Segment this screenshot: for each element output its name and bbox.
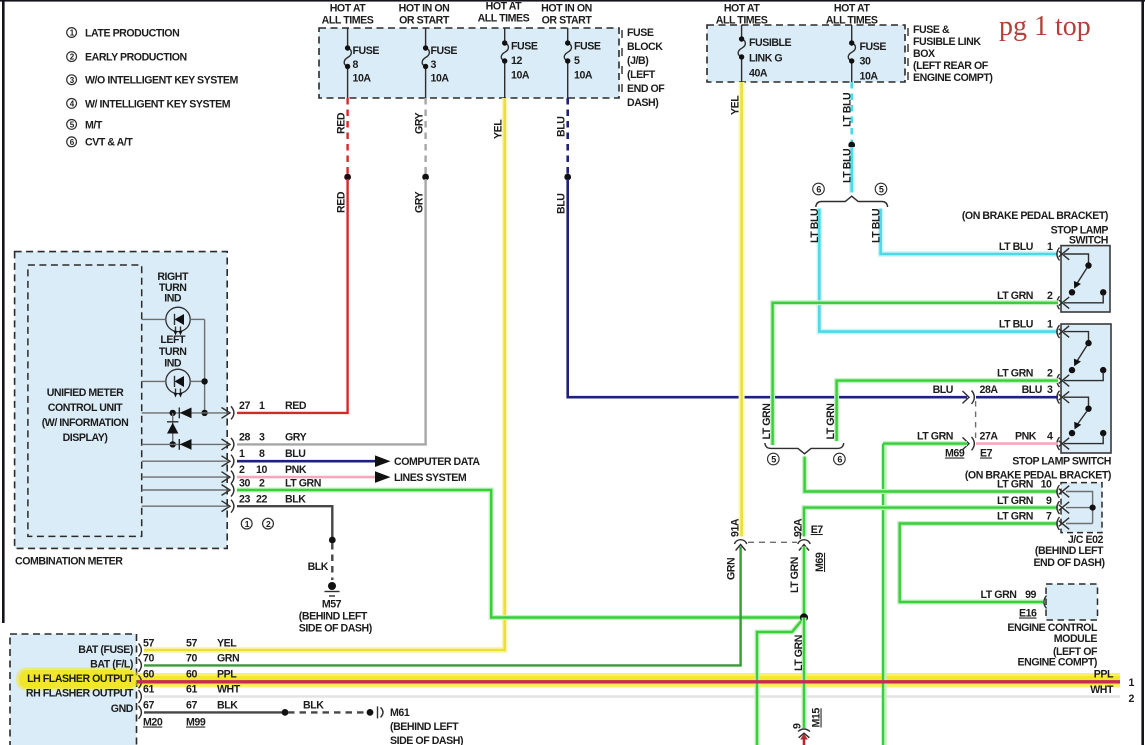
svg-text:OR START: OR START: [399, 15, 450, 27]
pin label 70 70 GRN: [143, 653, 239, 665]
svg-text:COMBINATION METER: COMBINATION METER: [15, 556, 123, 568]
wire label LT BLU branch 5: [870, 209, 882, 243]
wire LT BLU branch 5 to upper stop lamp switch pin 1: [881, 209, 1058, 255]
junction pin 27 row left: [170, 410, 176, 416]
wire LT GRN to upper switch pin 2: [773, 303, 1058, 445]
svg-text:PNK: PNK: [1015, 431, 1037, 443]
svg-text:1: 1: [1047, 319, 1053, 331]
svg-text:FUSE: FUSE: [511, 41, 538, 53]
svg-text:LT GRN: LT GRN: [997, 495, 1033, 507]
svg-text:RH FLASHER OUTPUT: RH FLASHER OUTPUT: [26, 688, 134, 700]
fuse 5 10A: [564, 28, 601, 98]
wire label LT GRN at upper switch: [997, 290, 1033, 302]
junction on BLK wire: [329, 537, 336, 544]
page top border line: [0, 0, 1145, 2]
svg-text:YEL: YEL: [217, 638, 237, 650]
svg-text:OR START: OR START: [542, 15, 593, 27]
svg-text:1: 1: [259, 400, 265, 412]
label BAT (FUSE): [78, 644, 133, 656]
wire label GRY upper: [414, 112, 426, 134]
svg-text:UNIFIED METER: UNIFIED METER: [47, 387, 124, 399]
meter internal wire pin 2 row: [142, 476, 228, 478]
svg-text:BLU: BLU: [933, 384, 953, 396]
svg-text:BOX: BOX: [913, 48, 935, 60]
svg-text:pg 1 top: pg 1 top: [999, 11, 1091, 42]
arrow computer data PNK: [375, 471, 391, 483]
legend note 6 circled: [67, 137, 134, 149]
page left border bar: [2, 0, 5, 623]
bottom box pin 67 connector: [139, 706, 142, 719]
wire YEL from fuse 12 to meter pin 57: [144, 98, 505, 650]
svg-text:28A: 28A: [980, 384, 999, 396]
svg-text:10A: 10A: [511, 70, 530, 82]
wire WHT row: [144, 695, 1120, 698]
label 9 at M15: [792, 723, 804, 729]
merge brace for LT GRN branches: [765, 443, 844, 454]
wire GRY solid to meter pin 28: [237, 179, 426, 444]
svg-text:3: 3: [1047, 384, 1053, 396]
pin label 23 22 BLK: [239, 494, 306, 506]
wire label LT GRN at ECM pin 99: [981, 589, 1017, 601]
wire RED dashed from fuse 8: [346, 98, 348, 175]
wire LT GRN from 92A to J/C E02 pin 9: [804, 508, 1058, 537]
svg-text:(LEFT REAR OF: (LEFT REAR OF: [913, 60, 989, 72]
svg-text:ALL TIMES: ALL TIMES: [322, 15, 374, 27]
svg-text:67: 67: [143, 700, 154, 712]
svg-text:PPL: PPL: [217, 669, 237, 681]
svg-text:LT GRN: LT GRN: [761, 404, 773, 440]
stop lamp switch lower label: [965, 456, 1111, 482]
svg-text:HOT AT: HOT AT: [486, 1, 523, 13]
wire label LT BLU at lower switch: [999, 319, 1033, 331]
label 92A: [793, 518, 805, 537]
highlighter mark on LH FLASHER OUTPUT: [16, 668, 138, 691]
junction at bus pin 27 row: [201, 410, 207, 416]
arrow computer data BLU: [375, 455, 391, 467]
meter pin 28 connector: [222, 438, 234, 451]
svg-text:LT BLU: LT BLU: [842, 93, 854, 127]
fuse 12 10A: [501, 28, 538, 98]
wire LT BLU branch 6 to lower stop lamp switch pin 1: [819, 209, 1058, 332]
svg-text:(ON BRAKE PEDAL BRACKET): (ON BRAKE PEDAL BRACKET): [965, 470, 1111, 482]
svg-text:LT BLU: LT BLU: [870, 209, 882, 243]
svg-text:(W/ INFORMATION: (W/ INFORMATION: [42, 417, 129, 429]
ECM pin 99 connector: [1044, 596, 1047, 609]
wire LT GRN from meter pin 30 to junction: [237, 490, 802, 618]
svg-text:4: 4: [1047, 431, 1053, 443]
svg-text:LT GRN: LT GRN: [917, 431, 953, 443]
wire BLU solid to connector 28A: [568, 179, 967, 397]
pin label 67 67 BLK: [143, 700, 238, 712]
right turn ind label: [157, 271, 189, 305]
lower switch B internal contacts: [1064, 397, 1106, 443]
svg-text:FUSE: FUSE: [574, 41, 601, 53]
pin label 30 2 LT GRN: [239, 478, 321, 490]
pin label 57 57 YEL: [143, 638, 237, 650]
lower switch pin 2 connector: [1057, 374, 1069, 387]
svg-text:ALL TIMES: ALL TIMES: [478, 13, 530, 25]
svg-text:LT GRN: LT GRN: [997, 290, 1033, 302]
pin 7 J/C E02: [1046, 511, 1052, 523]
svg-text:M15: M15: [811, 708, 823, 728]
meter pin 30 connector: [222, 484, 234, 497]
svg-text:LT GRN: LT GRN: [997, 511, 1033, 523]
wire LT GRN from junction down to M15: [802, 618, 807, 729]
wire label LT BLU mid: [842, 149, 854, 183]
pin label 60 60 PPL: [143, 669, 237, 681]
svg-text:EARLY PRODUCTION: EARLY PRODUCTION: [85, 52, 187, 64]
svg-text:12: 12: [511, 55, 522, 67]
wire GRN from 91A down to meter pin 70 row: [144, 547, 741, 666]
vertical wire between pin rows 27 and 28: [172, 413, 174, 445]
svg-text:LT BLU: LT BLU: [999, 319, 1033, 331]
fuse 3 10A: [422, 28, 457, 98]
svg-text:FUSE: FUSE: [860, 41, 887, 53]
svg-text:M61: M61: [390, 707, 410, 719]
svg-text:10: 10: [1041, 479, 1052, 491]
diode on pin 28 row: [179, 439, 191, 450]
pin 2 lower switch: [1047, 368, 1053, 380]
off page label 1: [1129, 677, 1135, 689]
wire LT GRN branch diagonal to left vertical: [757, 620, 803, 745]
svg-text:(BEHIND LEFT: (BEHIND LEFT: [390, 721, 459, 733]
label PPL right end: [1094, 669, 1114, 681]
svg-text:40A: 40A: [749, 68, 768, 80]
svg-text:M99: M99: [186, 717, 206, 729]
svg-text:GRY: GRY: [285, 432, 307, 444]
svg-text:LT GRN: LT GRN: [997, 479, 1033, 491]
wire BLK from meter pin 23: [237, 506, 332, 538]
pin 99 ECM: [1025, 589, 1036, 601]
wire LT BLU solid to split brace: [849, 147, 855, 193]
svg-text:22: 22: [256, 494, 267, 506]
connector 91A: [734, 540, 746, 551]
off page red arrow: [800, 734, 808, 745]
meter internal wire pin 30 row: [142, 489, 228, 491]
svg-text:DISPLAY): DISPLAY): [63, 432, 108, 444]
svg-text:LT BLU: LT BLU: [842, 149, 854, 183]
svg-text:92A: 92A: [793, 518, 805, 537]
svg-text:MODULE: MODULE: [1054, 633, 1098, 645]
svg-text:70: 70: [143, 653, 154, 665]
connector 27A: [963, 437, 975, 450]
label E7 at 92A: [811, 524, 824, 536]
svg-text:30: 30: [860, 56, 871, 68]
svg-text:M69: M69: [814, 552, 826, 572]
stop lamp switch lower box: [1061, 324, 1111, 453]
svg-text:27A: 27A: [980, 431, 999, 443]
dashed link between 28A and 27A: [975, 401, 977, 440]
svg-text:PPL: PPL: [1094, 669, 1114, 681]
page annotation pg 1 top: [999, 11, 1091, 42]
svg-text:7: 7: [1046, 511, 1052, 523]
label M69 under 27A: [945, 448, 965, 460]
junction pin 28 row left: [170, 441, 176, 447]
legend note 5 circled: [67, 119, 103, 131]
left turn indicator LED: [166, 369, 190, 397]
left turn ind label: [159, 334, 187, 370]
label BLU right of 28A: [1022, 384, 1042, 396]
svg-text:60: 60: [143, 669, 154, 681]
wire label LT BLU upper: [842, 93, 854, 127]
svg-text:LT GRN: LT GRN: [981, 589, 1017, 601]
circled 6 at merge brace: [834, 453, 846, 465]
svg-text:E7: E7: [980, 448, 993, 460]
svg-text:2: 2: [266, 519, 271, 529]
svg-text:BLU: BLU: [285, 448, 305, 460]
svg-text:ALL TIMES: ALL TIMES: [826, 15, 878, 27]
wire LT GRN from J/C E02 pin 7 to ECM pin 99: [900, 524, 1058, 603]
pin 3 lower switch: [1047, 384, 1053, 396]
label E7 under 27A: [980, 448, 993, 460]
svg-text:FUSE &: FUSE &: [913, 24, 950, 36]
bottom box pin 60 connector: [139, 675, 142, 688]
wire label LT GRN below 92A: [789, 557, 801, 593]
wire LT GRN to lower switch pin 2: [837, 381, 1058, 441]
net label HOT IN ON OR START (fuse 5): [541, 3, 592, 27]
diode between rows 27 and 28: [167, 422, 178, 434]
svg-text:91A: 91A: [730, 518, 742, 537]
wire label YEL right: [730, 95, 742, 115]
svg-text:M69: M69: [945, 448, 965, 460]
svg-text:SIDE OF DASH): SIDE OF DASH): [390, 735, 463, 745]
circled 2 note at meter: [263, 518, 274, 529]
legend note 3 circled: [67, 75, 239, 87]
svg-text:COMPUTER DATA: COMPUTER DATA: [394, 456, 480, 468]
pin label 61 61 WHT: [143, 684, 241, 696]
junction LT GRN: [800, 613, 808, 621]
meter pin 1 connector: [222, 455, 234, 468]
wire label LT BLU at upper switch: [999, 241, 1033, 253]
fuse 30 10A: [848, 25, 886, 83]
svg-text:PNK: PNK: [285, 464, 307, 476]
circled 5 at upper brace: [875, 183, 887, 195]
svg-text:(BEHIND LEFT: (BEHIND LEFT: [1035, 545, 1104, 557]
wire LT BLU dashed from fuse 30: [850, 82, 853, 143]
fuse 8 10A: [344, 28, 379, 98]
svg-text:BAT (FUSE): BAT (FUSE): [78, 644, 133, 656]
pin 1 upper switch: [1047, 241, 1053, 253]
wire PPL highlighted row: [137, 680, 1120, 683]
label BLK at GND wire: [303, 700, 324, 712]
engine control module box: [1046, 584, 1098, 620]
svg-text:LINK G: LINK G: [749, 53, 782, 65]
svg-text:HOT IN ON: HOT IN ON: [399, 3, 450, 15]
svg-text:FUSE: FUSE: [627, 27, 654, 39]
svg-text:BLOCK: BLOCK: [627, 41, 663, 53]
svg-text:10A: 10A: [431, 73, 450, 85]
net label HOT AT ALL TIMES (fuse 12): [478, 1, 530, 25]
svg-text:BLK: BLK: [285, 494, 306, 506]
label LT GRN left of 27A: [917, 431, 953, 443]
svg-text:WHT: WHT: [217, 684, 241, 696]
svg-text:GRY: GRY: [414, 191, 426, 213]
svg-text:LATE PRODUCTION: LATE PRODUCTION: [85, 27, 179, 39]
stop lamp switch upper box: [1061, 246, 1110, 312]
svg-text:BLU: BLU: [556, 117, 568, 137]
svg-text:23: 23: [239, 494, 250, 506]
connector 92A: [798, 534, 810, 551]
svg-text:9: 9: [1046, 495, 1052, 507]
svg-text:GRN: GRN: [217, 653, 239, 665]
dashed link between 91A and 92A: [748, 541, 797, 543]
svg-text:W/ INTELLIGENT KEY SYSTEM: W/ INTELLIGENT KEY SYSTEM: [85, 98, 231, 110]
wire BLK dashed to M61: [288, 711, 367, 713]
wire label LT GRN branch 6: [825, 404, 837, 440]
pin 2 upper switch: [1047, 290, 1053, 302]
wire PNK from 27A to pin 4: [976, 442, 1058, 445]
svg-text:CONTROL UNIT: CONTROL UNIT: [48, 402, 123, 414]
svg-text:STOP LAMP SWITCH: STOP LAMP SWITCH: [1012, 456, 1111, 468]
diode on pin 27 row: [179, 408, 191, 419]
lower switch pin 4 connector: [1057, 437, 1069, 450]
wire GRY dashed from fuse 3: [424, 98, 426, 175]
wire label RED lower: [336, 191, 348, 213]
wire label LT GRN branch 5: [761, 404, 773, 440]
pin 9 J/C E02: [1046, 495, 1052, 507]
wire RED solid to meter pin 27: [237, 179, 348, 413]
fuse block J/B right label: [622, 27, 665, 109]
wire LT GRN merged to J/C E02 pin 10: [805, 457, 1058, 492]
svg-text:ENGINE COMPT): ENGINE COMPT): [1018, 657, 1098, 669]
J/C E02 label: [1033, 534, 1104, 569]
svg-text:(J/B): (J/B): [627, 55, 648, 67]
svg-text:1: 1: [1047, 241, 1053, 253]
svg-text:10: 10: [256, 464, 267, 476]
label RH FLASHER OUTPUT: [26, 688, 134, 700]
svg-text:TURN: TURN: [159, 346, 187, 358]
unified meter control unit box: [28, 265, 142, 536]
split brace for LT BLU branches: [816, 196, 888, 207]
wire LT GRN below 92A to junction: [802, 547, 807, 617]
svg-text:1: 1: [245, 519, 250, 529]
wire LT GRN into 27A: [883, 444, 967, 745]
meter internal wire pin 27 row: [142, 412, 228, 414]
wire label LT GRN at J/C pin 7: [997, 511, 1033, 523]
J/C E02 pin 9 connector: [1057, 501, 1069, 514]
svg-text:LT GRN: LT GRN: [789, 557, 801, 593]
highlighter band on PPL wire row: [136, 673, 1120, 688]
svg-text:10A: 10A: [574, 70, 593, 82]
svg-text:BAT (F/L): BAT (F/L): [90, 659, 133, 671]
junction on GRY wire: [422, 174, 429, 181]
svg-text:61: 61: [143, 684, 154, 696]
off page label 2: [1129, 693, 1135, 705]
fuse and fusible link box: [707, 25, 905, 82]
svg-text:YEL: YEL: [493, 119, 505, 139]
svg-text:RED: RED: [285, 400, 307, 412]
wire label GRN below 91A: [726, 558, 738, 580]
svg-text:9: 9: [792, 723, 804, 729]
pin 10 J/C E02: [1041, 479, 1052, 491]
svg-text:1: 1: [1129, 677, 1135, 689]
wire label BLK: [308, 561, 329, 573]
svg-text:IND: IND: [164, 293, 182, 305]
wire from unit to left LED: [142, 380, 166, 382]
meter internal wire pin 1 row: [142, 460, 228, 462]
lower switch A internal contacts: [1064, 332, 1106, 381]
right turn indicator LED: [166, 307, 190, 335]
upper switch pin 2 connector: [1057, 296, 1069, 309]
svg-text:70: 70: [186, 653, 197, 665]
pin 4 lower switch: [1047, 431, 1053, 443]
circled 5 at merge brace: [768, 453, 780, 465]
svg-text:3: 3: [259, 432, 265, 444]
svg-text:END OF: END OF: [627, 83, 665, 95]
svg-text:LT GRN: LT GRN: [793, 635, 805, 671]
combination meter box: [15, 252, 228, 549]
fusible link G 40A: [738, 25, 791, 82]
svg-text:HOT AT: HOT AT: [330, 3, 367, 15]
meter lower connector box: [10, 634, 137, 745]
svg-text:GRY: GRY: [414, 112, 426, 134]
svg-text:BLK: BLK: [217, 700, 238, 712]
svg-text:8: 8: [353, 59, 359, 71]
pin label 27 1 RED: [239, 400, 307, 412]
legend note 2 circled: [67, 52, 187, 64]
svg-text:CVT & A/T: CVT & A/T: [85, 137, 133, 149]
svg-text:10A: 10A: [353, 73, 372, 85]
svg-text:67: 67: [186, 700, 197, 712]
bottom box pin 70 connector: [139, 659, 142, 672]
svg-text:ALL TIMES: ALL TIMES: [716, 15, 768, 27]
svg-text:6: 6: [837, 454, 842, 464]
label BLU left of 28A: [933, 384, 953, 396]
svg-text:2: 2: [239, 464, 245, 476]
svg-text:61: 61: [186, 684, 197, 696]
wire label LT GRN at lower switch pin 2: [997, 368, 1033, 380]
junction on GND wire: [282, 709, 289, 716]
svg-text:8: 8: [259, 448, 265, 460]
wire label BLU upper: [556, 117, 568, 137]
wire BLU to computer data lines: [237, 460, 375, 463]
meter internal wire pin 23 row: [142, 505, 228, 507]
svg-text:BLK: BLK: [303, 700, 324, 712]
upper switch internal contacts: [1064, 254, 1106, 303]
pin 1 lower switch: [1047, 319, 1053, 331]
label 91A: [730, 518, 742, 537]
combination meter label: [15, 556, 123, 568]
pin label 28 3 GRY: [239, 432, 307, 444]
fuse and fusible link box right label: [908, 24, 993, 84]
legend note 1 circled: [67, 27, 180, 39]
svg-text:SWITCH: SWITCH: [1069, 235, 1108, 247]
svg-text:LH FLASHER OUTPUT: LH FLASHER OUTPUT: [27, 673, 134, 685]
wire PNK to computer data lines: [237, 476, 375, 479]
svg-text:5: 5: [879, 184, 884, 194]
J/C E02 pin 7 connector: [1057, 517, 1069, 530]
bottom box pin 61 connector: [139, 690, 142, 703]
label PNK: [1015, 431, 1037, 443]
bottom box pin 57 connector: [139, 644, 142, 657]
meter pin 23 connector: [222, 500, 234, 513]
svg-text:(ON BRAKE PEDAL BRACKET): (ON BRAKE PEDAL BRACKET): [962, 210, 1108, 222]
computer data lines system label: [394, 456, 480, 484]
J/C E02 pin 10 connector: [1057, 485, 1069, 498]
svg-text:FUSE: FUSE: [431, 45, 458, 57]
wire BLU dashed from fuse 5: [566, 98, 569, 175]
svg-text:LT BLU: LT BLU: [809, 209, 821, 243]
label 27A: [980, 431, 999, 443]
label WHT right end: [1090, 684, 1114, 696]
lower switch pin 1 connector: [1057, 325, 1069, 338]
svg-text:E7: E7: [811, 524, 824, 536]
label GND: [111, 703, 134, 715]
label E16: [1019, 608, 1037, 620]
junction at left LED bus: [201, 378, 207, 384]
wire label RED upper: [336, 112, 348, 134]
wire label BLU lower: [556, 194, 568, 214]
